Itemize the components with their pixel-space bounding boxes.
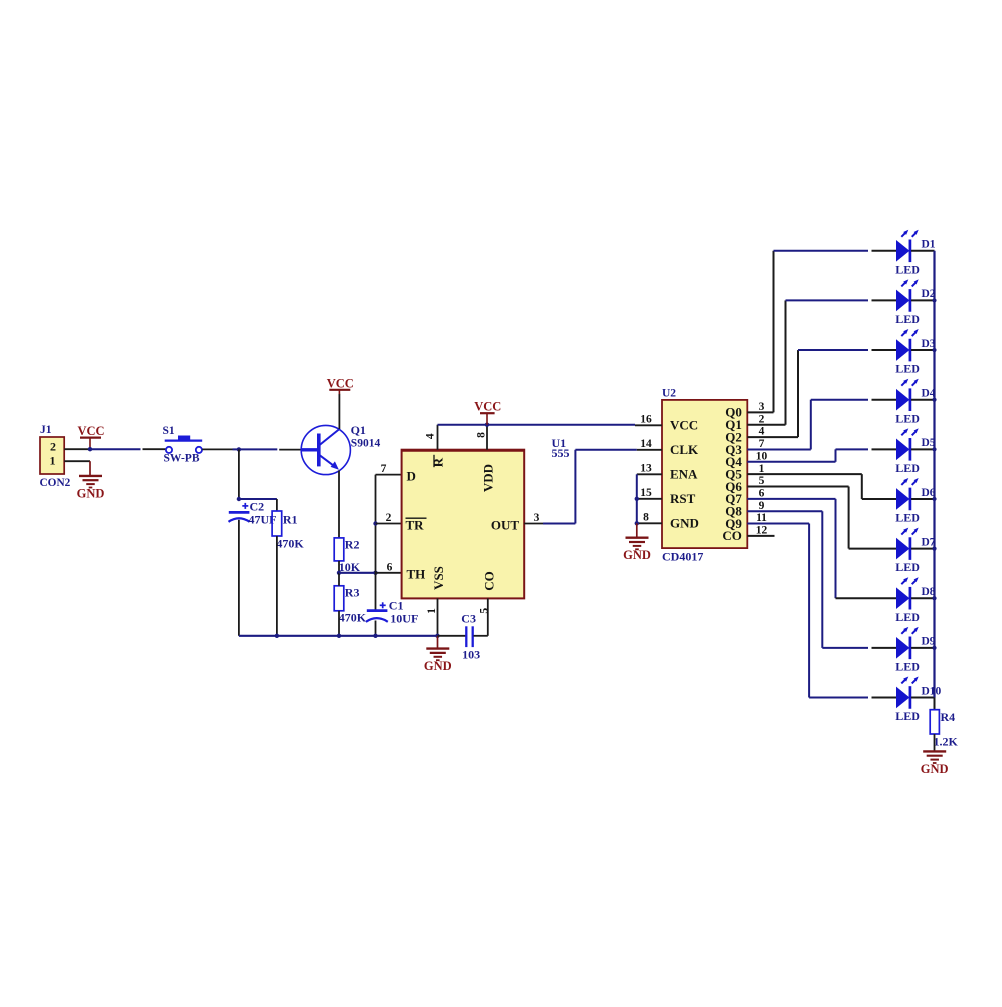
- svg-text:2: 2: [759, 413, 765, 425]
- svg-text:4: 4: [425, 433, 437, 439]
- svg-text:8: 8: [476, 432, 488, 438]
- svg-text:OUT: OUT: [491, 518, 520, 533]
- svg-text:1: 1: [50, 454, 56, 468]
- svg-text:7: 7: [381, 463, 387, 475]
- svg-text:VSS: VSS: [431, 566, 446, 590]
- svg-text:VCC: VCC: [77, 424, 104, 438]
- svg-text:12: 12: [756, 525, 768, 537]
- svg-text:LED: LED: [895, 411, 920, 425]
- svg-text:ENA: ENA: [670, 467, 698, 482]
- svg-text:3: 3: [759, 401, 765, 413]
- svg-text:RST: RST: [670, 491, 696, 506]
- svg-text:13: 13: [640, 463, 652, 475]
- svg-text:CON2: CON2: [40, 477, 71, 489]
- svg-text:2: 2: [386, 512, 392, 524]
- svg-text:CD4017: CD4017: [662, 550, 703, 564]
- svg-text:LED: LED: [895, 659, 920, 673]
- svg-text:U2: U2: [662, 388, 676, 400]
- svg-text:Q1: Q1: [351, 423, 366, 437]
- svg-text:R3: R3: [345, 586, 360, 600]
- svg-text:GND: GND: [670, 516, 699, 531]
- svg-text:D: D: [407, 469, 416, 484]
- svg-text:LED: LED: [895, 262, 920, 276]
- svg-text:14: 14: [640, 438, 652, 450]
- svg-text:GND: GND: [921, 762, 949, 776]
- svg-text:CO: CO: [482, 571, 497, 591]
- svg-text:S1: S1: [163, 425, 175, 437]
- svg-text:R: R: [431, 457, 446, 467]
- svg-text:CLK: CLK: [670, 442, 699, 457]
- svg-text:J1: J1: [40, 424, 52, 436]
- svg-text:R1: R1: [283, 513, 298, 527]
- svg-text:11: 11: [756, 512, 767, 524]
- svg-text:C1: C1: [389, 598, 404, 612]
- svg-text:7: 7: [759, 438, 765, 450]
- svg-text:16: 16: [640, 414, 652, 426]
- svg-text:15: 15: [640, 487, 652, 499]
- svg-text:C2: C2: [250, 500, 265, 514]
- svg-text:GND: GND: [424, 659, 452, 673]
- svg-text:1.2K: 1.2K: [934, 735, 959, 749]
- svg-text:VDD: VDD: [481, 464, 496, 492]
- svg-text:VCC: VCC: [474, 400, 501, 414]
- svg-text:LED: LED: [895, 362, 920, 376]
- svg-text:5: 5: [478, 608, 490, 614]
- svg-text:R2: R2: [345, 538, 360, 552]
- svg-text:SW-PB: SW-PB: [164, 452, 200, 464]
- svg-text:9: 9: [759, 500, 765, 512]
- svg-text:C3: C3: [461, 611, 476, 625]
- svg-text:8: 8: [643, 512, 649, 524]
- svg-text:D10: D10: [922, 685, 942, 697]
- svg-text:LED: LED: [895, 312, 920, 326]
- svg-text:D1: D1: [922, 239, 936, 251]
- svg-text:555: 555: [552, 446, 570, 460]
- svg-text:LED: LED: [895, 610, 920, 624]
- svg-text:10UF: 10UF: [390, 612, 418, 626]
- svg-text:LED: LED: [895, 560, 920, 574]
- svg-text:4: 4: [759, 426, 765, 438]
- svg-text:1: 1: [426, 608, 438, 614]
- svg-text:TR: TR: [406, 518, 425, 533]
- svg-text:470K: 470K: [339, 611, 367, 625]
- svg-text:103: 103: [462, 648, 480, 662]
- svg-text:LED: LED: [895, 511, 920, 525]
- svg-text:3: 3: [534, 512, 540, 524]
- svg-text:6: 6: [759, 487, 765, 499]
- svg-text:1: 1: [759, 463, 765, 475]
- svg-text:LED: LED: [895, 709, 920, 723]
- svg-text:LED: LED: [895, 461, 920, 475]
- svg-text:5: 5: [759, 475, 765, 487]
- svg-text:6: 6: [387, 562, 393, 574]
- svg-text:2: 2: [50, 440, 56, 454]
- svg-text:S9014: S9014: [351, 437, 381, 449]
- svg-text:VCC: VCC: [327, 376, 354, 390]
- svg-text:10: 10: [756, 450, 768, 462]
- svg-text:TH: TH: [407, 567, 426, 582]
- svg-text:GND: GND: [623, 548, 651, 562]
- svg-text:470K: 470K: [276, 537, 304, 551]
- svg-text:R4: R4: [941, 710, 956, 724]
- svg-text:GND: GND: [77, 486, 105, 500]
- svg-text:VCC: VCC: [670, 418, 698, 433]
- svg-text:CO: CO: [722, 528, 742, 543]
